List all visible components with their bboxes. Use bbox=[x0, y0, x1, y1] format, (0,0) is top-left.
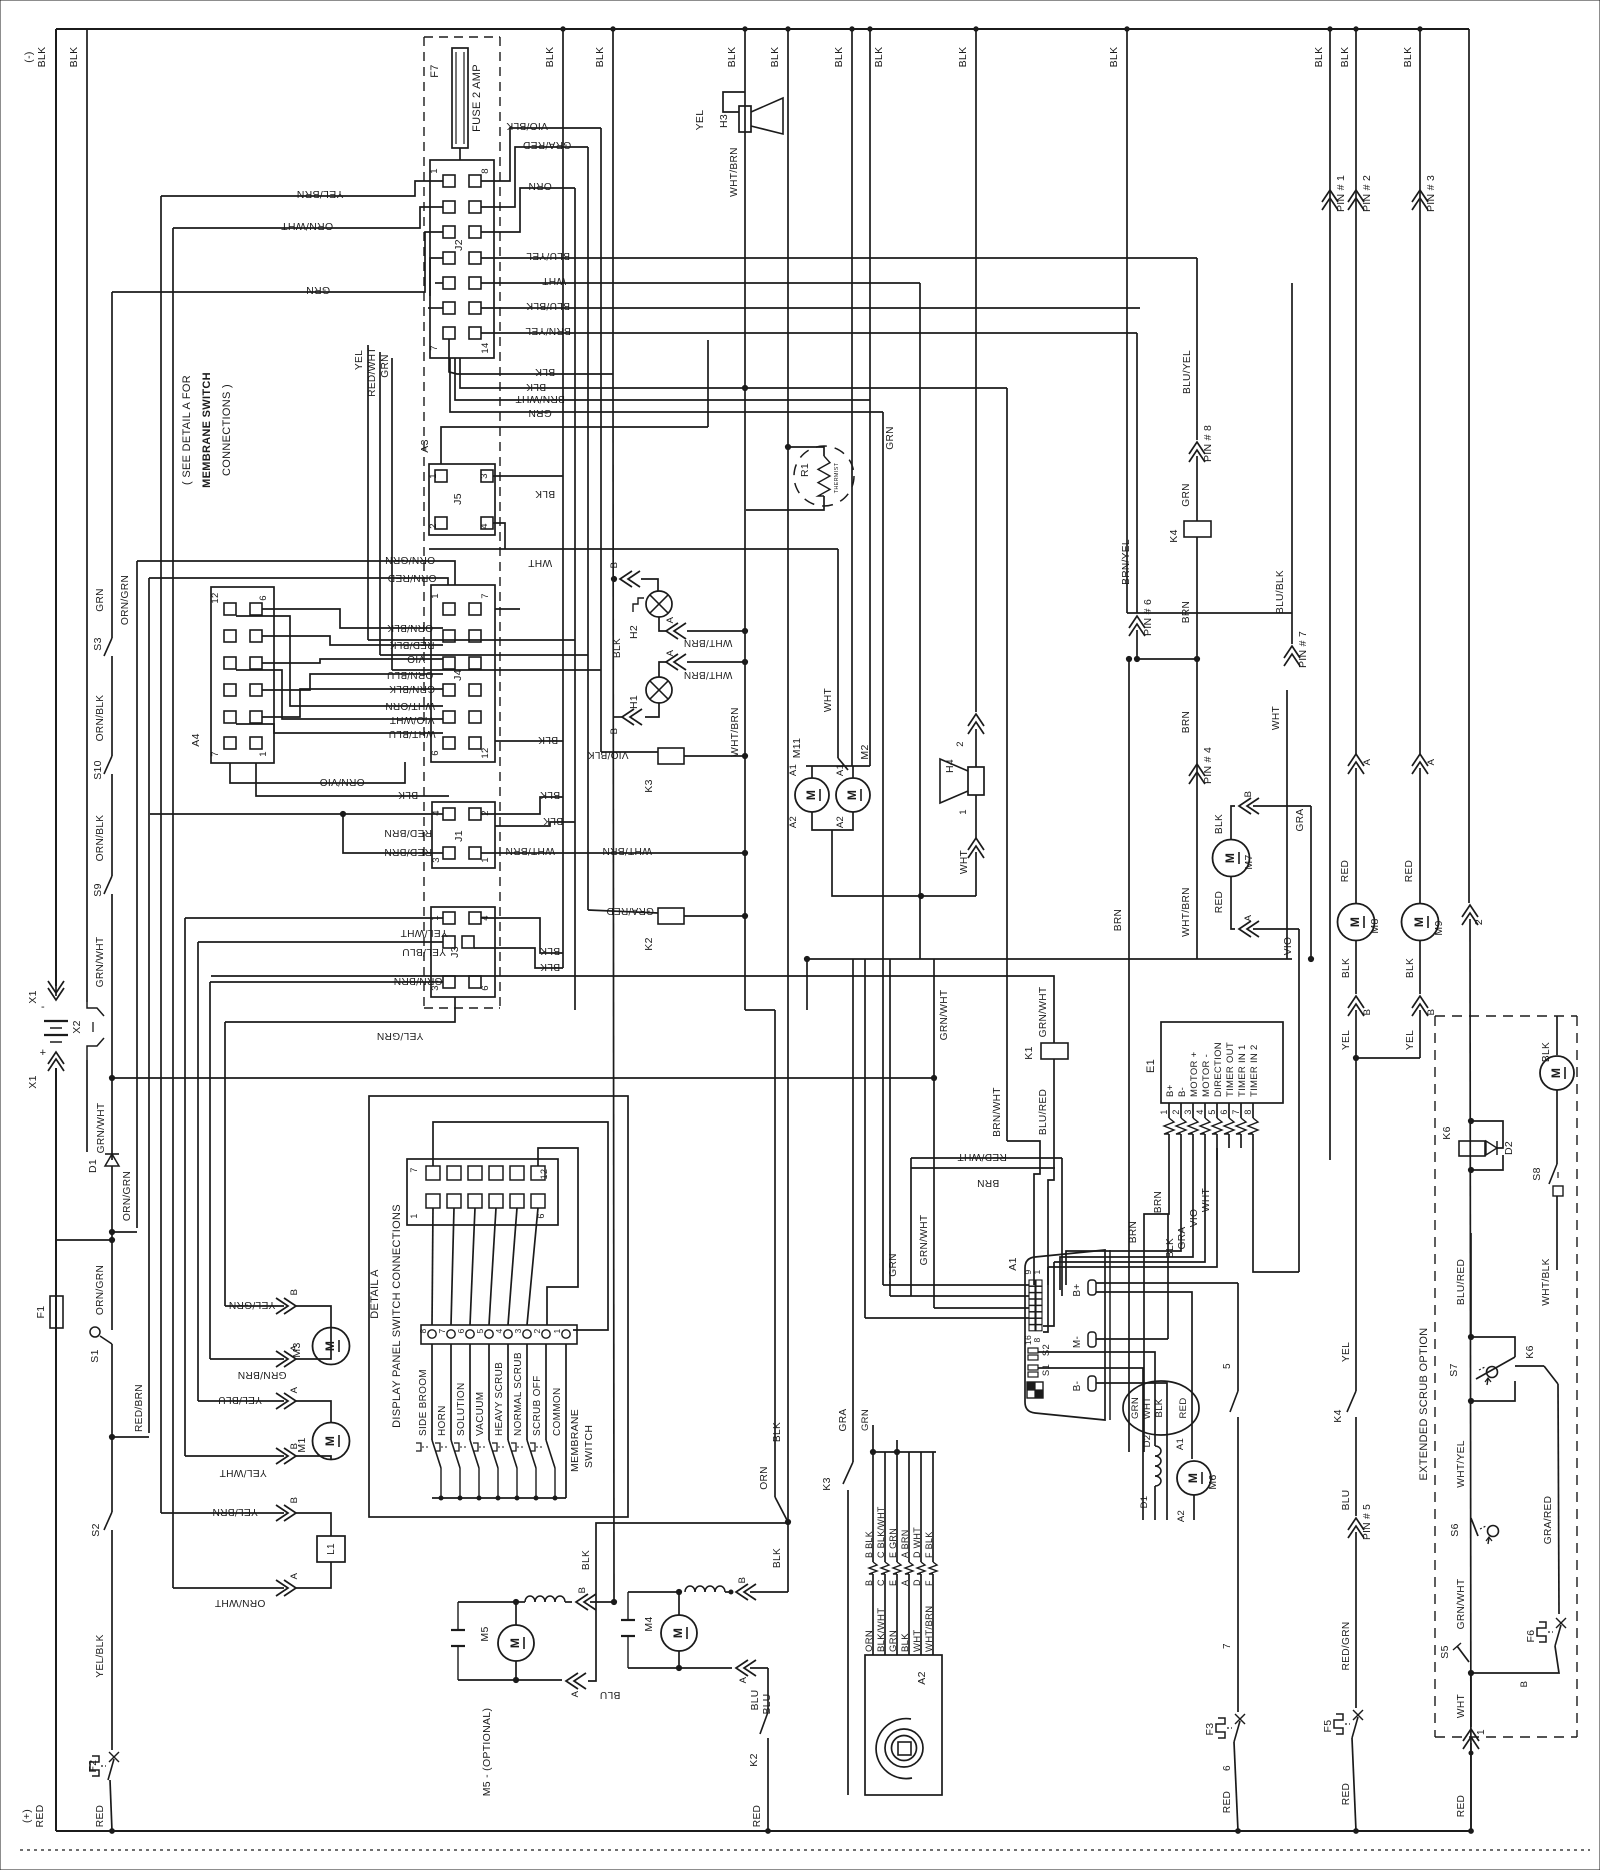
relay K6 bbox=[1459, 1141, 1485, 1156]
svg-text:DISPLAY PANEL SWITCH CONNECTIO: DISPLAY PANEL SWITCH CONNECTIONS bbox=[391, 1204, 403, 1428]
svg-text:X1: X1 bbox=[27, 990, 39, 1003]
svg-text:M: M bbox=[323, 1341, 337, 1351]
svg-text:1: 1 bbox=[428, 473, 439, 479]
svg-text:PIN # 2: PIN # 2 bbox=[1361, 175, 1373, 212]
wire J2 WHT long bbox=[481, 282, 920, 284]
svg-text:B: B bbox=[1519, 1681, 1530, 1688]
wire E1 pin2 BLK nest bbox=[1066, 1160, 1181, 1285]
connector arrow PIN#5 bbox=[1348, 1518, 1364, 1530]
svg-text:YEL/GRN: YEL/GRN bbox=[229, 1299, 276, 1310]
wire J2 right pin8 VIO/BLK bbox=[481, 128, 601, 181]
connector J3 body bbox=[431, 907, 495, 997]
wire J2 pin6 bbox=[428, 307, 443, 309]
svg-text:7: 7 bbox=[437, 1328, 447, 1333]
svg-text:BLK: BLK bbox=[726, 47, 738, 68]
wire A4 pin7 ORN/VIO bbox=[230, 762, 405, 783]
svg-text:A: A bbox=[665, 616, 676, 623]
svg-text:12: 12 bbox=[210, 592, 221, 603]
svg-text:ORN/GRN: ORN/GRN bbox=[120, 575, 131, 625]
svg-text:BLK: BLK bbox=[772, 1548, 783, 1568]
svg-text:WHT/ORN: WHT/ORN bbox=[385, 700, 435, 711]
svg-text:B: B bbox=[864, 1580, 874, 1586]
svg-text:BLK: BLK bbox=[1405, 958, 1416, 978]
svg-text:EXTENDED SCRUB OPTION: EXTENDED SCRUB OPTION bbox=[1418, 1328, 1430, 1481]
svg-text:YEL: YEL bbox=[694, 110, 706, 131]
wire WHT down to arrow 1 bbox=[1470, 1674, 1472, 1727]
svg-text:M11: M11 bbox=[791, 738, 803, 759]
svg-text:BLK/WHT: BLK/WHT bbox=[876, 1608, 887, 1652]
svg-text:1: 1 bbox=[1476, 1729, 1487, 1735]
wire K6 loop bbox=[1471, 1121, 1503, 1148]
svg-text:GRN: GRN bbox=[528, 407, 552, 418]
inductor M5 bbox=[525, 1596, 535, 1602]
svg-text:BLK: BLK bbox=[540, 789, 560, 800]
svg-text:F7: F7 bbox=[429, 64, 441, 77]
svg-text:M: M bbox=[1186, 1473, 1200, 1483]
svg-text:BRN: BRN bbox=[1128, 1221, 1139, 1243]
controller E1 pins with breaks bbox=[1168, 1103, 1170, 1118]
svg-text:RED/GRN: RED/GRN bbox=[1341, 1621, 1352, 1670]
svg-text:WHT: WHT bbox=[528, 557, 552, 568]
svg-text:2: 2 bbox=[532, 1328, 542, 1333]
wire K6 contact blade bbox=[1515, 1365, 1544, 1367]
wire J2 pin3 GRN bbox=[112, 232, 443, 292]
svg-text:M7: M7 bbox=[1243, 854, 1255, 869]
svg-text:4: 4 bbox=[494, 1328, 504, 1333]
wire J1 RED/BRN lower bbox=[343, 814, 443, 853]
svg-text:HEAVY SCRUB: HEAVY SCRUB bbox=[494, 1362, 505, 1436]
svg-text:GRN/WHT: GRN/WHT bbox=[919, 1215, 930, 1266]
key switch A2 box bbox=[865, 1655, 942, 1795]
lamp H1 bbox=[646, 677, 672, 703]
svg-text:GRN/WHT: GRN/WHT bbox=[95, 937, 106, 988]
connector X2 upper half bbox=[87, 1002, 104, 1016]
svg-text:D WHT: D WHT bbox=[912, 1527, 922, 1558]
svg-text:B: B bbox=[577, 1587, 588, 1594]
svg-text:ORN/BLK: ORN/BLK bbox=[95, 815, 106, 862]
connector arrow 2 on right vertical bbox=[1462, 905, 1478, 917]
wire left battery rail upper bbox=[55, 29, 57, 986]
svg-text:M4: M4 bbox=[643, 1616, 655, 1631]
svg-text:H2: H2 bbox=[628, 625, 640, 639]
wire GRN bus down x883 bbox=[882, 412, 884, 1285]
svg-text:GRN: GRN bbox=[380, 354, 391, 378]
svg-text:BLK: BLK bbox=[1339, 47, 1351, 68]
svg-text:L1: L1 bbox=[326, 1543, 337, 1555]
svg-text:6: 6 bbox=[1219, 1109, 1229, 1114]
svg-text:BLK: BLK bbox=[1214, 814, 1225, 834]
wire BRN x1129 long down bbox=[1128, 659, 1130, 1452]
svg-text:WHT/BRN: WHT/BRN bbox=[505, 845, 555, 856]
svg-text:MOTOR +: MOTOR + bbox=[1189, 1051, 1200, 1097]
svg-text:6: 6 bbox=[1222, 1765, 1233, 1771]
svg-text:DETAIL A: DETAIL A bbox=[369, 1269, 381, 1319]
svg-text:RED: RED bbox=[1341, 1783, 1352, 1805]
svg-text:GRN: GRN bbox=[306, 284, 330, 296]
svg-text:M: M bbox=[1348, 917, 1362, 927]
svg-text:S5: S5 bbox=[1439, 1645, 1451, 1658]
svg-text:GRA: GRA bbox=[1177, 1227, 1188, 1250]
wire BLK bus x563 bbox=[562, 29, 564, 968]
wire BLK x614 to M5 bbox=[613, 1596, 615, 1602]
svg-text:YEL/BRN: YEL/BRN bbox=[296, 188, 343, 200]
svg-text:7: 7 bbox=[1222, 1643, 1233, 1649]
wire right main vertical bbox=[1468, 29, 1470, 903]
connector J1 body bbox=[432, 802, 495, 868]
wire GRN long to x883 bbox=[450, 358, 883, 412]
svg-text:A1: A1 bbox=[1007, 1257, 1019, 1270]
svg-text:YEL/BLU: YEL/BLU bbox=[402, 946, 446, 957]
breaker F5 bbox=[1353, 1710, 1363, 1720]
svg-text:ORN/GRN: ORN/GRN bbox=[95, 1265, 106, 1315]
wire J2 BLU/YEL long bbox=[481, 257, 1197, 259]
thermistor R1 bbox=[794, 446, 854, 506]
svg-text:S10: S10 bbox=[92, 760, 104, 780]
svg-text:A: A bbox=[289, 1344, 300, 1351]
wire left battery rail lower bbox=[55, 1068, 57, 1831]
svg-text:C: C bbox=[876, 1579, 886, 1586]
svg-text:RED/BLK: RED/BLK bbox=[390, 639, 435, 650]
wire J1 BLK 2 bbox=[495, 822, 575, 826]
wire J3 BLK right2 bbox=[474, 948, 563, 968]
svg-text:+: + bbox=[40, 1047, 47, 1059]
wire RED/BRN bus x149 bbox=[148, 578, 150, 1433]
oval wire group callout bbox=[1123, 1381, 1199, 1435]
svg-text:RED: RED bbox=[752, 1805, 763, 1827]
svg-text:B: B bbox=[1243, 791, 1254, 798]
svg-text:VIO/BLK: VIO/BLK bbox=[506, 120, 548, 131]
wire bottom battery positive bus bbox=[56, 1830, 1471, 1832]
wire RED through oval to M6 bbox=[1191, 1380, 1193, 1459]
svg-text:CONNECTIONS ): CONNECTIONS ) bbox=[221, 384, 233, 476]
motor M6 bbox=[1177, 1461, 1211, 1495]
svg-text:M: M bbox=[1549, 1068, 1563, 1078]
motor M9 bbox=[1402, 904, 1439, 941]
svg-text:GRN: GRN bbox=[888, 1630, 899, 1652]
wire S2 to WHT bbox=[1038, 1352, 1155, 1390]
svg-text:BLK: BLK bbox=[594, 47, 606, 68]
svg-text:J1: J1 bbox=[453, 830, 465, 842]
svg-text:A: A bbox=[665, 649, 676, 656]
wire M5 loop bbox=[457, 1602, 459, 1630]
motor M5 optional bbox=[498, 1625, 534, 1661]
svg-text:THERMIST: THERMIST bbox=[834, 462, 840, 493]
svg-text:SIDE BROOM: SIDE BROOM bbox=[418, 1369, 429, 1436]
wire J2 pin7 BLK down bbox=[449, 339, 613, 374]
wire J3 BLK right bbox=[481, 918, 563, 953]
svg-text:F6: F6 bbox=[1525, 1630, 1537, 1643]
svg-text:X2: X2 bbox=[71, 1020, 83, 1033]
svg-text:GRN/WHT: GRN/WHT bbox=[1038, 987, 1049, 1038]
svg-text:ORN/GRN: ORN/GRN bbox=[122, 1171, 133, 1221]
svg-text:VIO: VIO bbox=[407, 653, 425, 664]
wire J2 pin4 bbox=[430, 258, 443, 296]
wire YEL/GRN bus x225 bbox=[224, 1022, 226, 1306]
wire R1 top bbox=[788, 447, 824, 456]
svg-text:D1: D1 bbox=[87, 1159, 99, 1173]
connector S1 on A1 bbox=[1028, 1365, 1038, 1370]
inductor M4 bbox=[685, 1586, 695, 1592]
svg-text:TIMER IN 1: TIMER IN 1 bbox=[1237, 1044, 1248, 1097]
svg-text:K1: K1 bbox=[1023, 1046, 1035, 1059]
wire X2 stub bbox=[86, 1060, 88, 1152]
svg-text:K2: K2 bbox=[643, 937, 655, 950]
svg-text:F5: F5 bbox=[1322, 1720, 1334, 1733]
svg-text:BLK: BLK bbox=[1341, 958, 1352, 978]
wire R1 bottom bbox=[746, 496, 824, 510]
wire long horizontal y959 bbox=[807, 958, 1292, 960]
svg-text:B: B bbox=[609, 562, 620, 569]
connector arrow PIN#2 bbox=[1348, 190, 1364, 202]
wire S1 to GRN bbox=[1038, 1368, 1143, 1390]
svg-text:GRN: GRN bbox=[1130, 1397, 1141, 1419]
svg-text:GRA: GRA bbox=[838, 1409, 849, 1432]
svg-text:S1: S1 bbox=[1041, 1364, 1052, 1376]
svg-text:A4: A4 bbox=[190, 733, 202, 746]
svg-text:-: - bbox=[41, 1001, 45, 1013]
terminal M- on A1 bbox=[1088, 1332, 1096, 1347]
svg-text:A: A bbox=[1243, 914, 1254, 921]
wire GRN through oval bbox=[1142, 1390, 1144, 1520]
svg-text:ORN: ORN bbox=[528, 180, 552, 191]
wire RED/BRN jog bbox=[112, 1436, 149, 1438]
wire BLK bus x1330 PIN1 bbox=[1329, 29, 1331, 1160]
wire J3 YEL/BLU bbox=[198, 941, 443, 943]
wire ORN/GRN jog to x137 bbox=[112, 1231, 137, 1233]
svg-text:PIN # 1: PIN # 1 bbox=[1335, 175, 1347, 212]
dashed connector enclosure box bbox=[424, 36, 500, 38]
connector X2 lower half bbox=[87, 1038, 104, 1060]
wire YEL/BRN bus down x161 bbox=[160, 196, 162, 1513]
svg-text:K6: K6 bbox=[1441, 1126, 1453, 1139]
wire YEL/BLU bus x198 bbox=[197, 942, 199, 1401]
svg-text:SOLUTION: SOLUTION bbox=[456, 1382, 467, 1436]
svg-text:RED/BRN: RED/BRN bbox=[384, 827, 432, 838]
svg-text:ORN/BLU: ORN/BLU bbox=[387, 669, 434, 680]
inductor coil bbox=[1155, 1446, 1161, 1456]
svg-text:1: 1 bbox=[958, 809, 969, 815]
svg-text:PIN # 8: PIN # 8 bbox=[1202, 425, 1214, 462]
wire J3 YEL/WHT bbox=[185, 917, 443, 919]
wire y659 cross bbox=[1137, 658, 1197, 660]
diode D2 bbox=[1486, 1141, 1497, 1155]
motor M1 bbox=[313, 1423, 350, 1460]
svg-text:ORN: ORN bbox=[864, 1630, 875, 1652]
svg-text:WHT: WHT bbox=[542, 275, 566, 286]
wire VIO/BLK down to K3 bbox=[600, 128, 602, 752]
block on A1 bbox=[1027, 1382, 1043, 1398]
svg-text:6: 6 bbox=[258, 595, 269, 601]
wire A4-J4 crossover group bbox=[262, 609, 443, 628]
svg-text:BRN/YEL: BRN/YEL bbox=[525, 325, 571, 336]
wire B- to BLK bbox=[1096, 1383, 1167, 1395]
svg-text:WHT/BLU: WHT/BLU bbox=[388, 728, 435, 739]
svg-text:SCRUB OFF: SCRUB OFF bbox=[532, 1376, 543, 1436]
svg-text:M: M bbox=[671, 1628, 685, 1638]
wire YEL/WHT bus x185 bbox=[184, 918, 186, 1456]
lamp H2 bbox=[646, 591, 672, 617]
svg-text:X1: X1 bbox=[27, 1075, 39, 1088]
svg-text:YEL/BLU: YEL/BLU bbox=[218, 1394, 262, 1405]
connector arrow PIN#3 bbox=[1412, 190, 1428, 202]
svg-text:BLK: BLK bbox=[398, 789, 418, 800]
svg-text:6: 6 bbox=[456, 1328, 466, 1333]
svg-text:1: 1 bbox=[1159, 1109, 1169, 1114]
svg-text:BLU: BLU bbox=[600, 1689, 621, 1700]
svg-text:BLU/YEL: BLU/YEL bbox=[1182, 350, 1193, 394]
connector A4 body bbox=[211, 587, 274, 763]
svg-text:1: 1 bbox=[430, 593, 441, 599]
svg-text:A2: A2 bbox=[916, 1671, 928, 1684]
connector S2 on A1 bbox=[1028, 1348, 1038, 1353]
svg-text:BLK: BLK bbox=[957, 47, 969, 68]
relay K1 bbox=[1041, 1043, 1068, 1059]
svg-text:2: 2 bbox=[428, 523, 439, 529]
svg-text:S7: S7 bbox=[1448, 1363, 1460, 1376]
wire M- to E1 bbox=[1096, 1338, 1168, 1340]
svg-text:RED: RED bbox=[34, 1804, 46, 1827]
switch S6 bbox=[1471, 1518, 1478, 1536]
wire BLK bus x870 bbox=[869, 29, 871, 766]
wire BRN/WHT long bbox=[455, 358, 870, 400]
svg-text:BRN: BRN bbox=[1153, 1191, 1164, 1213]
svg-text:MEMBRANE SWITCH: MEMBRANE SWITCH bbox=[201, 372, 213, 488]
svg-text:RED/WHT: RED/WHT bbox=[367, 347, 378, 397]
wire BLK bus x1420 PIN3 bbox=[1419, 29, 1421, 754]
svg-text:GRN/WHT: GRN/WHT bbox=[1456, 1579, 1467, 1630]
svg-text:BLK: BLK bbox=[540, 961, 560, 972]
wire A4 pin1 down bbox=[256, 763, 449, 796]
wire J2 BLU/BLK long bbox=[481, 307, 1140, 309]
wire WHT long to x838 bbox=[429, 548, 838, 550]
wire M1 B YEL/WHT bbox=[185, 1455, 284, 1457]
wire BLK through oval bbox=[1166, 1395, 1168, 1520]
wires membrane to strip bbox=[432, 1208, 433, 1325]
svg-text:SWITCH: SWITCH bbox=[583, 1425, 595, 1468]
motor M3 bbox=[313, 1328, 350, 1365]
svg-text:VIO/BLK: VIO/BLK bbox=[587, 749, 628, 760]
membrane connector block bbox=[407, 1159, 558, 1225]
svg-text:3: 3 bbox=[1183, 1109, 1193, 1114]
wire K1 BLU/RED down bbox=[1053, 1059, 1055, 1162]
svg-text:B+: B+ bbox=[1165, 1084, 1176, 1097]
wire nest to A1 from K1 bbox=[1048, 1162, 1054, 1285]
svg-text:S8: S8 bbox=[1531, 1167, 1543, 1180]
wire BLK bus x87 bbox=[86, 29, 88, 1002]
svg-text:VIO: VIO bbox=[1189, 1209, 1200, 1227]
svg-text:(-): (-) bbox=[23, 51, 35, 62]
wire J3 GRN/BRN bbox=[210, 981, 443, 983]
wire BLK bus x852 bbox=[851, 29, 853, 766]
wire F1 branch bbox=[56, 1239, 112, 1241]
svg-text:M: M bbox=[1412, 917, 1426, 927]
wire M3 A GRN/BRN bbox=[210, 1358, 284, 1360]
capacitor M5 bbox=[451, 1629, 465, 1631]
svg-text:WHT: WHT bbox=[1271, 706, 1282, 730]
svg-text:WHT/BRN: WHT/BRN bbox=[602, 845, 652, 856]
svg-text:WHT: WHT bbox=[959, 850, 970, 874]
battery B1 symbol bbox=[44, 1020, 68, 1022]
svg-text:PIN # 5: PIN # 5 bbox=[1362, 1504, 1373, 1540]
wire J2 pin2 ORN/WHT bbox=[173, 207, 443, 228]
connector arrow PIN#6 bbox=[1129, 616, 1145, 628]
svg-text:GRN/WHT: GRN/WHT bbox=[96, 1103, 107, 1154]
svg-text:K3: K3 bbox=[643, 779, 655, 792]
wire J2 ORN bbox=[481, 188, 575, 232]
svg-text:YEL: YEL bbox=[1405, 1030, 1416, 1050]
svg-text:A: A bbox=[570, 1690, 581, 1697]
svg-text:BLU/RED: BLU/RED bbox=[1038, 1089, 1049, 1135]
wire ORN diagonal bbox=[775, 1497, 788, 1522]
svg-text:A: A bbox=[289, 1386, 300, 1393]
svg-text:MOTOR -: MOTOR - bbox=[1201, 1054, 1212, 1097]
svg-text:RED/BRN: RED/BRN bbox=[384, 846, 432, 857]
svg-text:BLK: BLK bbox=[581, 1550, 592, 1570]
wire J4 BLK right 2 bbox=[495, 608, 520, 610]
svg-text:GRN: GRN bbox=[95, 588, 106, 612]
wire left rail x112 bbox=[111, 292, 113, 630]
wire BLK bus x1356 PIN2 bbox=[1355, 29, 1357, 754]
wire J5 pin3 BLK bbox=[493, 475, 563, 477]
wire M3 B YEL/GRN bbox=[225, 1305, 284, 1307]
wire GRN/WHT riser to K1 bbox=[211, 976, 1054, 1043]
wire YEL RED/WHT GRN triple below J2 bbox=[367, 345, 369, 640]
motor M8 bbox=[1338, 904, 1375, 941]
svg-text:TIMER IN 2: TIMER IN 2 bbox=[1249, 1044, 1260, 1097]
wire BRN/WHT x1007 down bbox=[1006, 388, 1008, 1141]
svg-text:WHT/BRN: WHT/BRN bbox=[684, 637, 733, 648]
svg-text:1: 1 bbox=[258, 751, 269, 757]
svg-text:7: 7 bbox=[210, 751, 221, 757]
svg-text:( SEE DETAIL A FOR: ( SEE DETAIL A FOR bbox=[181, 375, 193, 485]
svg-text:BRN: BRN bbox=[1181, 601, 1192, 623]
wire BRN horizontal bbox=[911, 1167, 1055, 1169]
svg-text:J2: J2 bbox=[453, 239, 465, 251]
svg-text:YEL: YEL bbox=[1341, 1030, 1352, 1050]
svg-text:BLK: BLK bbox=[543, 815, 563, 826]
svg-text:B: B bbox=[609, 728, 620, 735]
svg-text:ORN/BLK: ORN/BLK bbox=[95, 695, 106, 742]
svg-text:K4: K4 bbox=[1332, 1409, 1344, 1422]
svg-text:YEL/BRN: YEL/BRN bbox=[212, 1506, 258, 1517]
svg-text:M5: M5 bbox=[479, 1626, 491, 1641]
svg-text:J4: J4 bbox=[452, 669, 464, 681]
svg-text:M5 - (OPTIONAL): M5 - (OPTIONAL) bbox=[481, 1708, 493, 1797]
svg-text:E GRN: E GRN bbox=[888, 1528, 898, 1558]
svg-text:YEL: YEL bbox=[1341, 1342, 1352, 1362]
svg-text:RED: RED bbox=[1178, 1398, 1189, 1419]
svg-text:BLK: BLK bbox=[540, 945, 560, 956]
svg-text:12: 12 bbox=[539, 1169, 549, 1180]
wire E1 pin4 VIO nest bbox=[1054, 1160, 1205, 1262]
svg-text:YEL/WHT: YEL/WHT bbox=[219, 1467, 266, 1478]
svg-text:4: 4 bbox=[1195, 1109, 1205, 1114]
wire J2 GRA/RED bbox=[481, 147, 588, 207]
svg-text:D2: D2 bbox=[1142, 1435, 1153, 1448]
svg-text:GRN/BRN: GRN/BRN bbox=[237, 1369, 286, 1380]
module A1 body bbox=[1025, 1250, 1105, 1420]
battery X1 upper connector arrow bbox=[48, 988, 64, 1000]
svg-text:YEL/WHT: YEL/WHT bbox=[400, 927, 447, 938]
wire J5 pin4 to WHT line bbox=[493, 523, 505, 549]
svg-text:A: A bbox=[738, 1676, 749, 1683]
svg-text:BLU/YEL: BLU/YEL bbox=[526, 250, 570, 261]
connector arrow PIN#4 bbox=[1189, 764, 1205, 776]
motor M4 bbox=[661, 1615, 697, 1651]
svg-text:M: M bbox=[845, 790, 859, 800]
svg-text:BLU/BLK: BLU/BLK bbox=[1275, 570, 1286, 614]
connector arrow PIN#1 bbox=[1322, 190, 1338, 202]
